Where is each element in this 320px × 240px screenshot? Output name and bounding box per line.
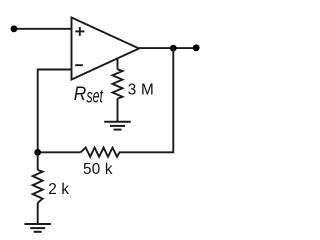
svg-text:2 k: 2 k: [48, 181, 69, 198]
svg-text:50 k: 50 k: [83, 161, 113, 178]
op-amp U1: [72, 18, 140, 80]
resistor 50 k: [38, 148, 120, 157]
op-amp − input marker: [75, 64, 83, 66]
wire: non-inverting input: [14, 28, 72, 30]
ground (below 2 k): [24, 224, 51, 232]
resistor 2 k: [33, 152, 43, 224]
output terminal dot: [193, 44, 200, 51]
op-amp + input marker: [75, 27, 84, 36]
svg-text:R: R: [74, 83, 87, 105]
wire: output: [139, 47, 196, 49]
svg-text:set: set: [87, 86, 104, 107]
svg-text:3 M: 3 M: [128, 81, 154, 98]
resistor R_set 3 M: [113, 59, 123, 122]
ground (below 3 M): [104, 122, 131, 130]
wire: feedback right vertical: [119, 48, 174, 152]
output junction dot: [170, 45, 177, 52]
input terminal node: [11, 25, 18, 32]
wire: inverting input down to feedback node: [38, 70, 72, 153]
label Rset: [74, 83, 104, 108]
feedback node dot: [34, 149, 41, 156]
